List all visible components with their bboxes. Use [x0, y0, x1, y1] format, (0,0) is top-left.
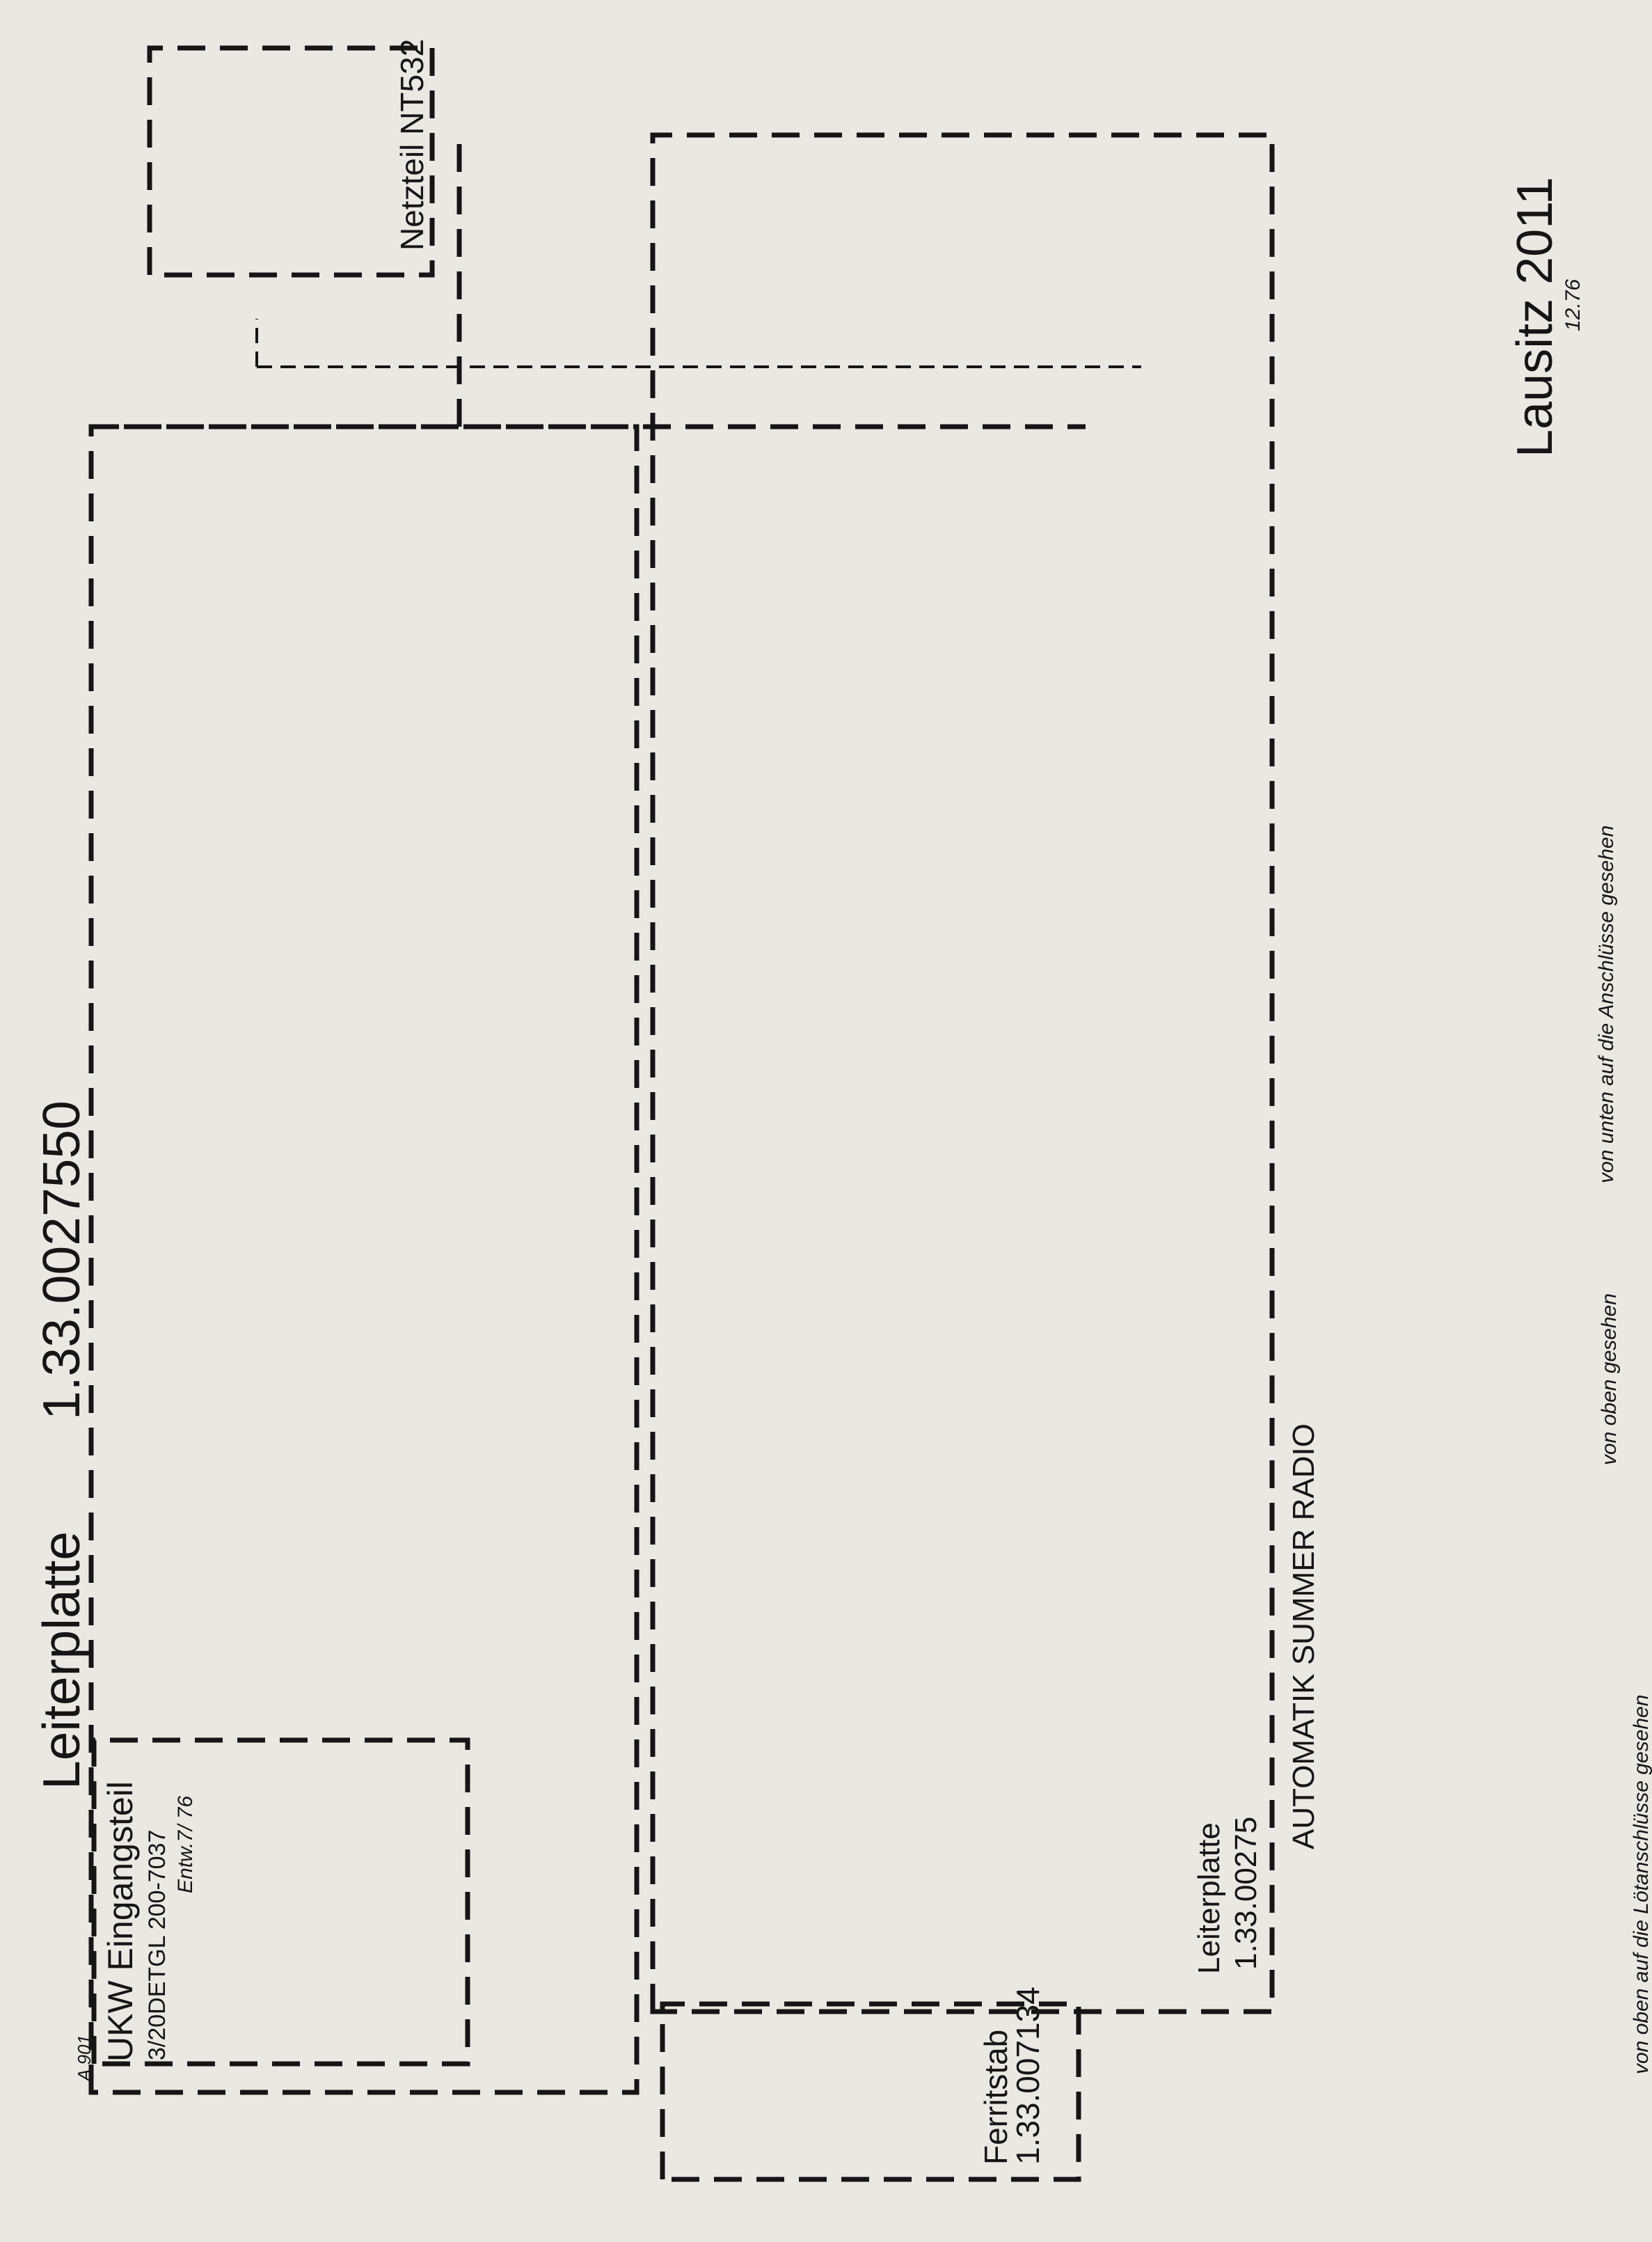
svg-text:1.33.007134: 1.33.007134	[1010, 1987, 1046, 2165]
svg-text:Netzteil NT532: Netzteil NT532	[394, 39, 430, 251]
svg-text:von oben auf die Lötanschlüsse: von oben auf die Lötanschlüsse gesehen	[1630, 1695, 1652, 2074]
svg-text:12.76: 12.76	[1562, 279, 1585, 331]
svg-text:A 901: A 901	[74, 2035, 95, 2083]
svg-text:von oben gesehen: von oben gesehen	[1598, 1293, 1621, 1465]
svg-text:3/20DETGL 200-7037: 3/20DETGL 200-7037	[144, 1830, 170, 2060]
svg-text:Entw.7/ 76: Entw.7/ 76	[174, 1796, 197, 1893]
svg-text:von unten auf die Anschlüsse g: von unten auf die Anschlüsse gesehen	[1595, 826, 1618, 1183]
svg-text:Leiterplatte: Leiterplatte	[32, 1531, 90, 1790]
svg-text:1.33.0027550: 1.33.0027550	[32, 1100, 90, 1420]
svg-text:Ferritstab: Ferritstab	[978, 2030, 1014, 2165]
svg-text:Leiterplatte: Leiterplatte	[1192, 1822, 1226, 1974]
svg-text:1.33.00275: 1.33.00275	[1229, 1817, 1263, 1970]
svg-text:UKW Eingangsteil: UKW Eingangsteil	[101, 1781, 140, 2062]
svg-text:AUTOMATIK SUMMER RADIO: AUTOMATIK SUMMER RADIO	[1287, 1423, 1321, 1849]
svg-text:Lausitz 2011: Lausitz 2011	[1507, 177, 1563, 457]
